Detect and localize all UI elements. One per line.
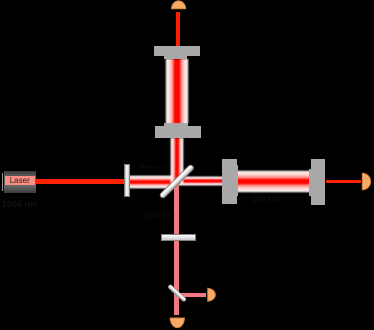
photodiode south-east xyxy=(208,288,216,301)
pick-off mirror (small diagonal plate) xyxy=(168,284,187,302)
label recycling mirror (near-black text) xyxy=(139,163,167,172)
photodiode north xyxy=(172,1,186,9)
signal recycling mirror SRM (thin horizontal plate) xyxy=(161,234,196,241)
wire north beam (BS to north ITM) glow xyxy=(170,138,184,184)
label beam splitter (near-black text) xyxy=(143,211,171,220)
wire south output beam (BS down to bottom photodiode) xyxy=(174,183,178,315)
wire recycled beam (BS to east ITM) glow xyxy=(176,176,223,187)
wire recycled beam (PRM to BS) glow xyxy=(127,175,177,189)
photodiode east xyxy=(362,173,370,190)
north end test mass ETM-N xyxy=(154,46,200,56)
label 100 kW (near-black text) xyxy=(252,195,280,204)
wire north arm cavity beam (thick) xyxy=(165,59,189,124)
north input test mass ITM-N xyxy=(155,126,201,138)
beam splitter BS (diagonal plate) xyxy=(159,164,195,199)
power recycling mirror PRM (thin vertical plate) xyxy=(124,164,130,197)
east input test mass ITM-E xyxy=(222,159,237,204)
laser back reflector line xyxy=(2,173,3,192)
laser label plate 'Laser' xyxy=(5,176,35,185)
laser housing xyxy=(4,171,36,192)
wire laser output beam (laser to power-recycling mirror) xyxy=(36,179,128,183)
wire east transmitted beam to photodiode xyxy=(326,180,361,183)
wire north transmitted beam to photodiode xyxy=(176,12,180,47)
wire pick-off beam (to south-east photodiode) xyxy=(177,293,206,297)
wire east arm cavity beam (thick) xyxy=(237,170,310,193)
east end test mass ETM-E xyxy=(311,159,325,205)
photodiode south xyxy=(170,318,184,328)
label 1064 nm (near-black text) xyxy=(2,199,38,209)
